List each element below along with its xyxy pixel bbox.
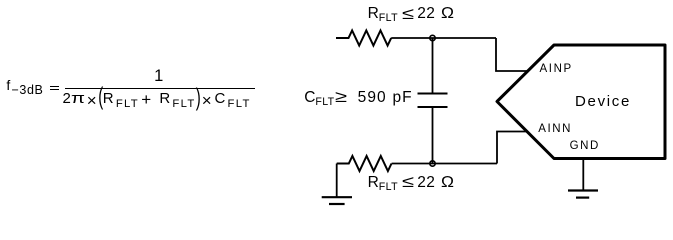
- formula denominator: 2 pi: [63, 91, 71, 106]
- label Device: [575, 94, 631, 109]
- ground (left): [322, 197, 352, 204]
- wire: bottom resistor left leg to ground: [336, 164, 338, 198]
- wire: AINN vertical rise and lead: [497, 132, 527, 164]
- label 22 ohm (top resistor): [417, 6, 453, 22]
- formula denominator: multiply sign 1: [87, 92, 97, 109]
- resistor R_FLT bottom: [337, 156, 392, 171]
- formula subscript -3dB: [12, 84, 44, 97]
- label R_FLT (top resistor): [368, 6, 398, 22]
- formula denominator: multiply sign 2: [202, 92, 212, 109]
- pin label AINN: [538, 124, 572, 136]
- pin label GND: [570, 141, 600, 153]
- label 590 pF (capacitor): [358, 90, 413, 106]
- formula fraction bar: [65, 88, 255, 89]
- wire: node A down to capacitor top plate: [432, 38, 434, 94]
- formula f: [6, 78, 10, 92]
- resistor R_FLT top: [336, 31, 391, 46]
- label C_FLT (capacitor): [304, 90, 334, 106]
- wire: bottom resistor to node B: [392, 163, 497, 165]
- device U1 outline: [497, 45, 665, 159]
- pin label AINP: [540, 64, 573, 76]
- label >= (capacitor): [335, 89, 344, 106]
- wire: AINP vertical drop and lead: [496, 38, 527, 71]
- node B junction circle: [430, 161, 435, 166]
- label R_FLT (bottom resistor): [368, 175, 398, 191]
- capacitor C_FLT: [418, 94, 448, 108]
- label 22 ohm (bottom resistor): [417, 175, 453, 191]
- node A junction circle: [430, 35, 435, 40]
- formula denominator: pi: [71, 91, 81, 106]
- label <= (top resistor): [402, 6, 411, 23]
- formula denominator: plus sign: [141, 91, 151, 108]
- wire: GND pin stem: [582, 159, 584, 191]
- formula denominator: C_FLT: [215, 91, 251, 106]
- formula numerator 1: [154, 68, 163, 85]
- ground (GND pin): [568, 191, 598, 198]
- formula equals sign: [50, 86, 59, 87]
- formula denominator: open paren: [98, 84, 103, 109]
- formula denominator: R_FLT second: [159, 91, 195, 106]
- wire: top resistor to node A: [391, 37, 496, 39]
- formula denominator: R_FLT first: [103, 91, 139, 106]
- formula denominator: close paren: [196, 86, 201, 111]
- label <= (bottom resistor): [402, 174, 411, 191]
- wire: capacitor bottom plate down to node B: [432, 107, 434, 164]
